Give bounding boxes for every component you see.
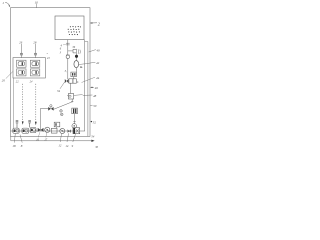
dashed control line B with arrow	[35, 84, 37, 125]
leader for label 17	[46, 133, 47, 138]
right label 42	[84, 61, 100, 65]
label 20 at left margin with leader	[2, 71, 13, 82]
label 10 tick on top edge	[35, 0, 39, 7]
riser b above gas box	[34, 44, 36, 58]
leader label 18 under valve V1	[12, 134, 16, 148]
clamp fitting	[73, 49, 76, 53]
box above V6	[54, 122, 60, 128]
svg-text:х3: х3	[46, 57, 50, 60]
right label 52 with dot	[91, 120, 97, 124]
chamber 2	[55, 16, 84, 40]
svg-text:36: 36	[72, 46, 75, 49]
stub with tick below heater	[73, 114, 75, 124]
filled valve knob on line R	[75, 55, 78, 58]
line L lower segment	[67, 58, 69, 79]
union flange ticks on line L	[66, 43, 70, 45]
svg-text:24: 24	[30, 80, 33, 83]
bypass horizontal to drain	[41, 107, 49, 109]
svg-text:b: b	[77, 81, 79, 84]
svg-text:44: 44	[96, 76, 100, 80]
hatched actuator on drain valve 1	[16, 120, 19, 128]
label 2 with leader	[90, 21, 100, 26]
leader to right label from regulator	[74, 94, 83, 97]
arrow tip near ellipse	[80, 66, 82, 68]
MFC box	[71, 72, 77, 77]
right label 40	[89, 48, 100, 52]
fitting marks right of line R	[78, 49, 80, 54]
svg-text:12: 12	[58, 143, 62, 147]
circled labels 30a 30b	[60, 110, 63, 116]
right label 44	[82, 76, 100, 83]
enclosure	[11, 8, 91, 137]
bypass valve with knob	[48, 105, 53, 111]
svg-text:30: 30	[95, 146, 98, 149]
svg-text:34: 34	[57, 89, 61, 93]
svg-text:9: 9	[72, 144, 74, 148]
gas unit box C (bottom-left)	[17, 69, 26, 76]
gas unit box B (top-right)	[30, 60, 39, 67]
bypass diagonal pipe	[54, 102, 72, 109]
svg-text:28: 28	[33, 40, 37, 44]
pipeline small bowtie V8	[68, 129, 71, 133]
svg-text:3: 3	[60, 51, 62, 54]
gas unit box A (top-left)	[17, 60, 26, 67]
svg-text:26: 26	[19, 40, 23, 44]
svg-text:2: 2	[98, 21, 100, 26]
svg-text:20: 20	[2, 79, 6, 83]
pipeline valve V3	[30, 127, 36, 132]
pump circle	[72, 124, 77, 128]
valve row box 1	[69, 79, 73, 83]
right exhaust pipe 2	[85, 42, 88, 137]
right label 46 with dot	[90, 86, 98, 90]
gas cabinet box	[13, 58, 45, 78]
svg-text:1: 1	[2, 1, 4, 5]
svg-text:52: 52	[93, 120, 97, 124]
svg-text:50: 50	[93, 104, 97, 108]
pipeline valve V1	[13, 128, 19, 133]
riser a above gas box	[20, 44, 22, 58]
right label 48	[83, 94, 97, 98]
gas unit box D (bottom-right)	[30, 69, 39, 76]
drain vertical to pipeline	[40, 108, 42, 131]
leader to right label from ellipse	[79, 63, 84, 66]
pipeline valve V2	[22, 128, 29, 133]
svg-text:40: 40	[96, 48, 100, 52]
external exhaust pipe	[11, 136, 95, 142]
svg-text:42: 42	[96, 61, 100, 65]
svg-text:22: 22	[16, 80, 19, 83]
valve row box 2	[73, 79, 76, 83]
svg-text:17: 17	[44, 139, 47, 142]
regulator box with side ticks	[67, 94, 73, 100]
label 1	[2, 1, 10, 7]
pipeline bowtie valve V4	[38, 128, 44, 132]
pipeline gauge circle V7	[60, 128, 65, 133]
pipeline box V6	[51, 128, 57, 133]
svg-text:46: 46	[95, 86, 99, 90]
sensor circle on line L	[66, 55, 70, 58]
line R upper	[75, 49, 77, 61]
line R lower	[75, 68, 77, 72]
svg-text:14: 14	[65, 144, 69, 148]
svg-text:16: 16	[36, 139, 39, 142]
dashed control line A with arrow	[22, 84, 24, 125]
svg-text:18: 18	[12, 144, 16, 148]
wafer dots in chamber	[68, 26, 81, 35]
right label 50	[90, 104, 97, 108]
leader label 14 under V8	[65, 133, 69, 148]
drop line below valve row	[70, 83, 72, 93]
branch to line R	[68, 50, 73, 52]
leader for label 16	[38, 132, 40, 137]
leader label 12 under V7	[58, 134, 62, 148]
pipeline gauge circle V5	[45, 127, 50, 132]
svg-text:6: 6	[60, 47, 62, 50]
valve row bowtie	[65, 79, 69, 83]
svg-text:x: x	[46, 52, 49, 55]
right exhaust pipe 1	[84, 40, 86, 131]
hatched actuator on drain valve 2	[28, 120, 31, 127]
svg-text:48: 48	[93, 94, 97, 98]
vaporizer ellipse	[74, 61, 79, 68]
svg-text:54: 54	[91, 134, 95, 138]
supply pipe from gas box down	[13, 78, 15, 128]
heater box with dark bars	[72, 108, 78, 114]
leader label 9 under V9	[72, 134, 76, 148]
svg-text:8: 8	[21, 144, 23, 148]
stub under regulator	[71, 99, 73, 102]
svg-text:3,: 3,	[65, 70, 67, 73]
leader and label 3a lower-left of bowtie	[57, 82, 65, 93]
bottom pipeline	[11, 130, 86, 132]
exhaust line L from chamber	[67, 40, 69, 55]
pipeline actuator valve V9	[73, 128, 80, 134]
leader label 8 under valve V2	[20, 135, 23, 148]
stub from MFC to valve row	[73, 77, 75, 79]
